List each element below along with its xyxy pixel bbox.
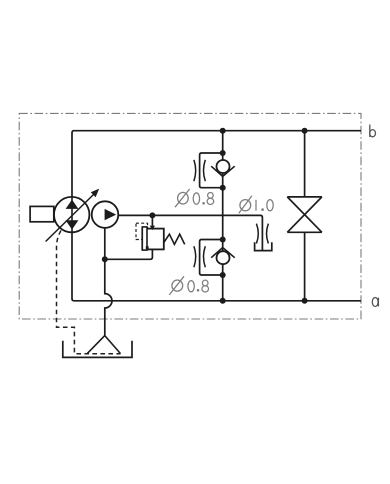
tank T1 (63, 341, 132, 358)
label diam 0.8 (top) (175, 189, 214, 207)
node: relief inlet junction (149, 212, 155, 218)
wire: pilot pump outlet line (118, 214, 223, 216)
orifice O3 arcs (drain, diam 1.0) (256, 224, 268, 244)
node: check branch on a rail (220, 298, 226, 304)
pump case drain (dashed) to tank (57, 231, 121, 354)
node: check branch on b rail (220, 128, 226, 134)
node: valve V1 branch on a rail (302, 298, 308, 304)
pump P1 (variable displacement, bidirectional) (54, 197, 89, 232)
check valve CV1 bypass loop (top) (200, 153, 223, 188)
node: CV1 bypass upper junction (220, 150, 226, 156)
wire: relief valve inlet (151, 215, 153, 228)
relief/compensator valve RV1 body (142, 226, 164, 250)
strainer S1 (87, 336, 120, 354)
tank T2 (drain cup) (255, 242, 272, 250)
wire: relief valve outlet to suction line (105, 249, 153, 259)
check valve CV2 bypass loop (bottom) (200, 240, 223, 276)
node: drain junction on suction line (102, 256, 108, 262)
orifice O2 arcs (diam 0.8, bottom) (194, 246, 205, 267)
orifice O1 arcs (diam 0.8, top) (194, 160, 205, 181)
node: CV1 bypass lower junction (220, 185, 226, 191)
variable displacement arrow (46, 189, 100, 242)
wire: check-valve branch vertical (222, 131, 224, 301)
wire: drain orifice branch (223, 215, 263, 250)
label diam 1.0 (239, 196, 273, 213)
node: valve V1 branch on b rail (302, 128, 308, 134)
label port b (370, 125, 376, 138)
enclosure dash-dot border (19, 113, 361, 319)
check valve CV1 ball and seat (211, 160, 235, 176)
label port a (372, 298, 378, 307)
wire: b rail (top) (72, 131, 361, 197)
label diam 0.8 (bottom) (169, 276, 208, 295)
node: CV2 bypass lower junction (220, 272, 226, 278)
wire: a rail (bottom) with pump bottom leg (72, 232, 361, 301)
check valve CV2 ball and seat (211, 248, 235, 265)
node: CV2 bypass upper junction (220, 237, 226, 243)
shut-off valve V1 (hourglass) (287, 131, 322, 301)
spring of RV1 (164, 234, 185, 244)
pump shaft (30, 206, 54, 221)
wire: suction line (pilot pump to strainer) with bridge over a rail (105, 228, 112, 336)
relief/compensator valve RV1 pilot box (dashed) (136, 223, 148, 239)
pilot pump P2 (92, 201, 119, 228)
